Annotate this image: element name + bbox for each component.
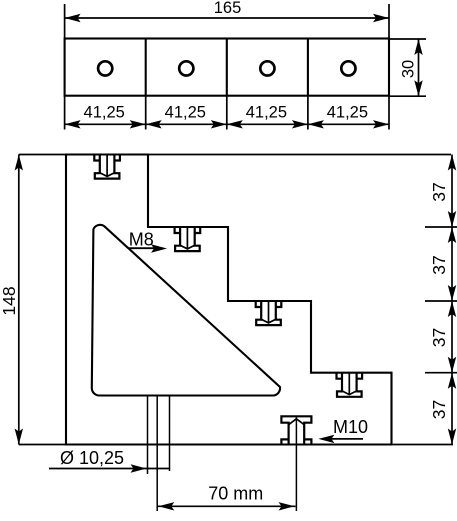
svg-text:37: 37 (429, 400, 449, 419)
svg-text:M10: M10 (333, 417, 368, 437)
svg-text:70 mm: 70 mm (208, 484, 263, 504)
svg-text:37: 37 (429, 255, 449, 274)
svg-text:41,25: 41,25 (165, 104, 206, 122)
svg-text:41,25: 41,25 (246, 104, 287, 122)
svg-text:37: 37 (429, 182, 449, 201)
svg-text:Ø 10,25: Ø 10,25 (60, 448, 124, 468)
svg-text:30: 30 (400, 60, 418, 78)
svg-text:148: 148 (0, 286, 19, 315)
svg-text:41,25: 41,25 (327, 104, 368, 122)
svg-text:165: 165 (214, 0, 242, 17)
svg-text:41,25: 41,25 (84, 104, 125, 122)
svg-text:37: 37 (429, 328, 449, 347)
svg-text:M8: M8 (129, 230, 154, 250)
